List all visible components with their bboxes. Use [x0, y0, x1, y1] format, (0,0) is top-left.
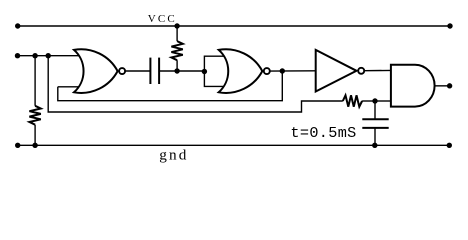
resistor R2 (input pulldown) — [29, 106, 40, 125]
svg-text:t=0.5mS: t=0.5mS — [290, 124, 356, 142]
capacitor C2 (timing) top plate — [362, 118, 388, 120]
wire: C2 bottom stem — [374, 128, 376, 145]
node: NOR2 input tie junction — [202, 69, 207, 74]
wire: R2 bottom stem — [34, 125, 36, 146]
node: bottom-left gnd terminal — [15, 143, 20, 148]
node: R3/C2/AND timing junction — [372, 98, 377, 103]
node: trigger input terminal — [15, 53, 20, 58]
node: R2 junction on trigger wire — [32, 53, 37, 58]
wire: NOR2 output to inverter input — [270, 70, 316, 72]
nor-gate U1 output bubble — [119, 68, 125, 74]
resistor R1 (pull-up to vcc) — [171, 41, 182, 60]
node: top-left vcc terminal — [15, 23, 20, 28]
node: output terminal — [447, 83, 452, 88]
node: C1/R1 junction — [174, 68, 179, 73]
inverter U3 output bubble — [358, 68, 364, 74]
wire: NOR2 input tie (both inputs) — [204, 56, 224, 86]
svg-text:gnd: gnd — [159, 146, 188, 163]
resistor R3 (timing resistor) — [343, 95, 362, 106]
wire: R1 bottom stem — [176, 60, 178, 71]
node: R2 bottom junction — [32, 143, 37, 148]
wire: outer feedback from trigger node to R3 — [48, 56, 343, 112]
capacitor C1 right plate — [158, 58, 160, 84]
wire: vcc top rail — [18, 25, 450, 27]
nor-gate U2 body — [219, 49, 263, 93]
node: C2 bottom junction — [372, 143, 377, 148]
and-gate U4 body — [391, 65, 435, 107]
wire: inner feedback NOR2 output to NOR1 lower input — [58, 71, 282, 101]
wire: inverter output to AND top input — [365, 69, 391, 71]
capacitor C1 (coupling) left plate — [149, 58, 151, 84]
nor-gate U1 body — [74, 49, 118, 93]
wire: C2 top stem — [374, 101, 376, 119]
wire: R1 top stem — [176, 26, 178, 41]
wire: timing node to AND bottom input — [375, 100, 391, 102]
node: bottom-right gnd terminal — [447, 143, 452, 148]
wire: R2 top stem — [34, 56, 36, 106]
node: NOR2 output junction — [280, 68, 285, 73]
wire: gnd bottom rail — [18, 144, 450, 146]
node: top-right vcc terminal — [447, 23, 452, 28]
inverter U3 body — [316, 50, 357, 92]
wire: R3 right lead to timing node — [362, 100, 375, 102]
svg-text:vcc: vcc — [148, 10, 177, 26]
wire: C1 to NOR2 input node — [159, 70, 204, 72]
wire: trigger input to NOR1 top input — [18, 55, 80, 57]
node: R1 junction on vcc rail — [174, 23, 179, 28]
nor-gate U2 output bubble — [264, 68, 270, 74]
wire: NOR1 output to C1 — [125, 70, 150, 72]
capacitor C2 bottom plate — [362, 127, 388, 129]
wire: NOR1 lower input stub — [58, 86, 80, 88]
wire: AND output — [434, 85, 447, 87]
node: outer feedback junction — [46, 53, 51, 58]
